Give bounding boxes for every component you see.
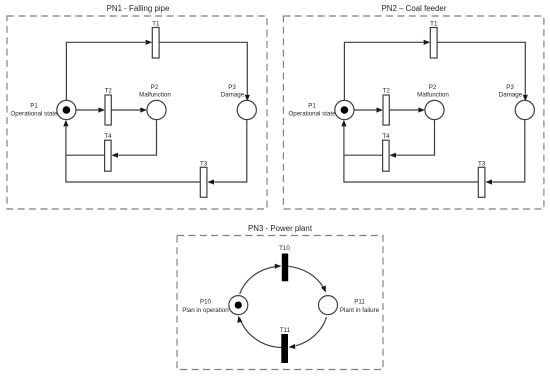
svg-text:T4: T4 xyxy=(382,133,390,140)
PN3 arc T10 to P11 xyxy=(289,266,326,292)
PN3 arc T11 to P10 xyxy=(237,316,281,348)
svg-text:T4: T4 xyxy=(104,133,112,140)
PN2 wire P1 to T1 (up and right along top) xyxy=(344,40,430,101)
svg-text:PN2 – Coal feeder: PN2 – Coal feeder xyxy=(382,4,447,13)
PN2 place P1 Operational state (with token) xyxy=(288,100,354,119)
PN2 wire T4 to P1 (left segment) xyxy=(344,154,383,156)
PN2 transition T2 xyxy=(383,87,391,125)
svg-text:Operational state: Operational state xyxy=(10,111,58,118)
svg-text:P3: P3 xyxy=(228,84,236,91)
svg-text:Malfunction: Malfunction xyxy=(417,92,449,99)
PN1 wire P1 to T1 (up and right along top) xyxy=(66,40,152,101)
svg-text:P11: P11 xyxy=(354,298,365,305)
PN2 wire T1 to P3 (right then down) xyxy=(437,42,528,101)
svg-text:T3: T3 xyxy=(200,160,208,167)
PN1 place P2 Malfunction xyxy=(139,84,171,120)
PN1 transition T2 xyxy=(105,87,113,125)
svg-text:P2: P2 xyxy=(151,84,159,91)
PN1 transition T4 xyxy=(104,133,112,171)
svg-text:T2: T2 xyxy=(105,87,113,94)
PN3 dashed boundary box xyxy=(177,236,383,370)
svg-text:PN3 - Power plant: PN3 - Power plant xyxy=(248,224,313,233)
PN3 place P10 Plan in operation (with token) xyxy=(182,296,248,315)
PN1 transition T3 xyxy=(200,160,208,197)
svg-text:P1: P1 xyxy=(308,103,316,110)
PN1 place P1 Operational state (with token) xyxy=(10,100,76,119)
PN1 wire P2 to T4 (down then left) xyxy=(111,120,156,158)
svg-text:T1: T1 xyxy=(152,21,160,28)
PN2 place P3 Damage xyxy=(499,84,535,120)
PN1 transition T1 xyxy=(152,21,160,58)
svg-text:T10: T10 xyxy=(279,245,290,252)
PN3 place P11 Plant in failure xyxy=(319,296,380,315)
svg-text:Damage: Damage xyxy=(221,92,245,99)
svg-text:P3: P3 xyxy=(506,84,514,91)
svg-text:Plan in operation: Plan in operation xyxy=(182,307,229,314)
PN1 wire T2 to P2 xyxy=(111,107,147,112)
PN2 wire T2 to P2 xyxy=(389,107,425,112)
PN1 wire T3 to P1 (left then up) xyxy=(63,120,200,182)
svg-text:Damage: Damage xyxy=(499,92,523,99)
svg-text:T11: T11 xyxy=(280,327,291,334)
svg-text:T3: T3 xyxy=(478,160,486,167)
PN2 wire P3 to T3 (down then left) xyxy=(485,120,524,185)
PN2 wire T3 to P1 (left then up) xyxy=(341,120,478,182)
PN2 transition T1 xyxy=(430,21,438,58)
svg-text:P1: P1 xyxy=(30,103,38,110)
PN3 transition T11 (filled) xyxy=(280,327,291,363)
svg-text:P2: P2 xyxy=(429,84,437,91)
PN1 wire P3 to T3 (down then left) xyxy=(207,120,246,185)
svg-text:T2: T2 xyxy=(383,87,391,94)
PN2 place P2 Malfunction xyxy=(417,84,449,120)
PN3 arc P11 to T11 xyxy=(289,317,327,349)
PN3 arc P10 to T10 xyxy=(240,264,282,294)
PN2 dashed boundary box xyxy=(283,16,544,209)
PN1 place P3 Damage xyxy=(221,84,257,120)
svg-text:Plant in failure: Plant in failure xyxy=(340,307,380,314)
svg-text:P10: P10 xyxy=(200,298,212,305)
PN1 wire P1 to T2 xyxy=(76,107,105,112)
PN2 wire P2 to T4 (down then left) xyxy=(389,120,434,158)
PN1 dashed boundary box xyxy=(7,16,267,209)
PN2 wire P1 to T2 xyxy=(354,107,383,112)
svg-text:Malfunction: Malfunction xyxy=(139,92,171,99)
PN3 transition T10 (filled) xyxy=(279,245,290,281)
svg-text:Operational state: Operational state xyxy=(288,111,336,118)
svg-text:T1: T1 xyxy=(430,21,438,28)
PN2 transition T3 xyxy=(478,160,486,197)
PN2 transition T4 xyxy=(382,133,390,171)
PN1 wire T1 to P3 (right then down) xyxy=(159,42,250,101)
svg-text:PN1 - Falling pipe: PN1 - Falling pipe xyxy=(107,4,170,13)
PN1 wire T4 to P1 (left segment) xyxy=(66,154,105,156)
